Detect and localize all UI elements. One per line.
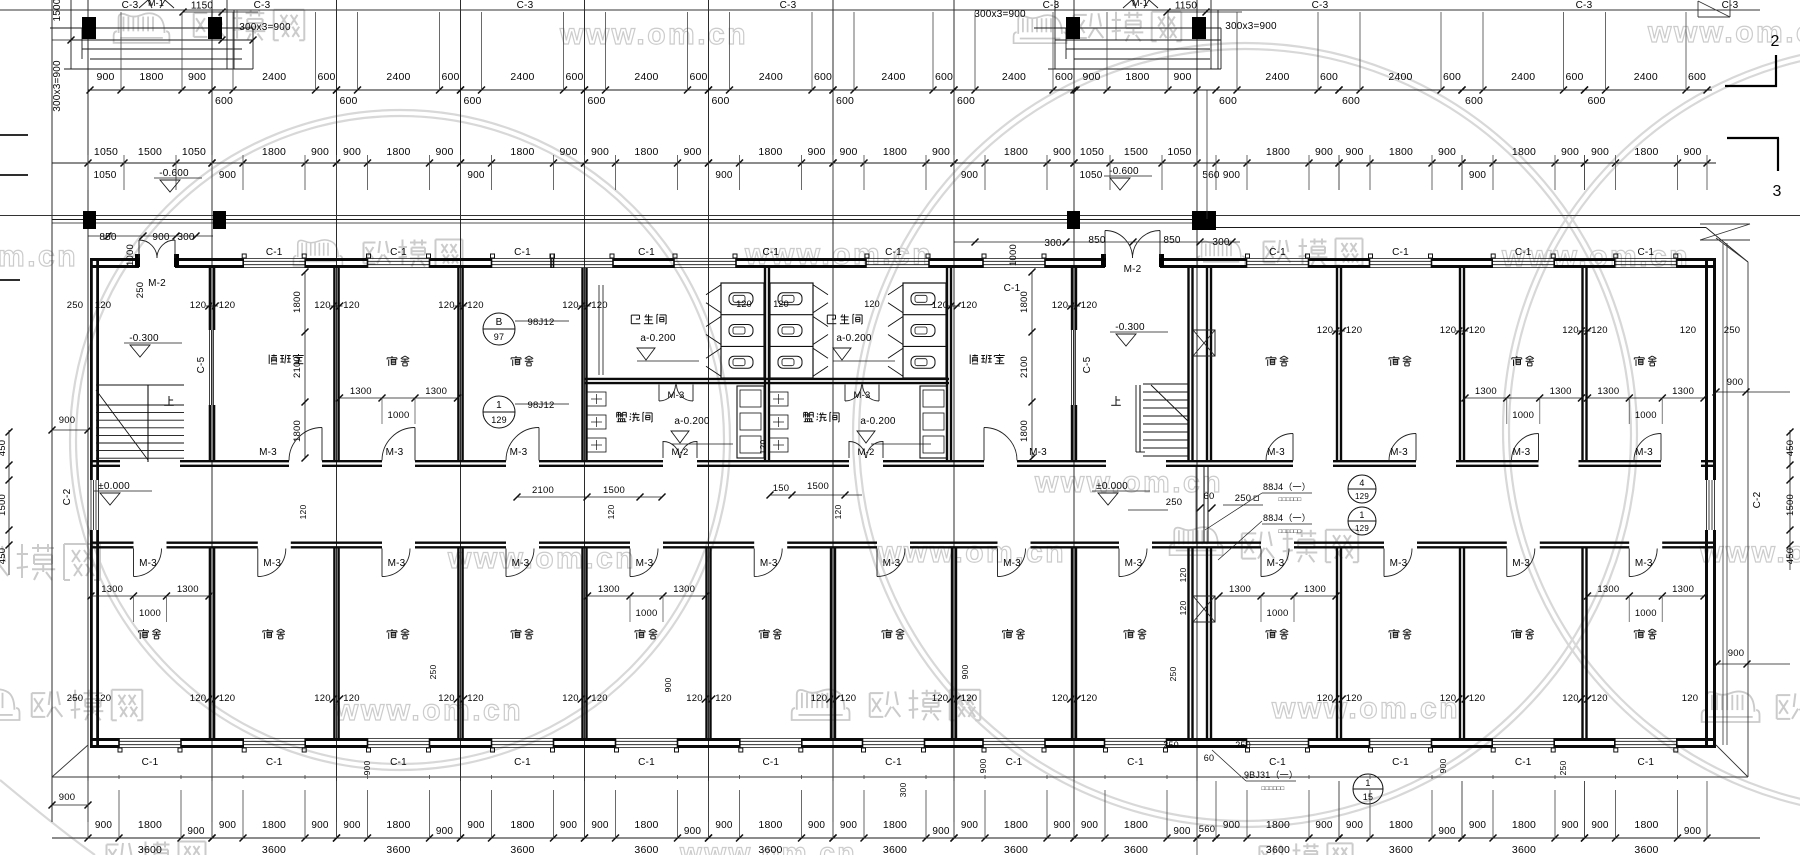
svg-text:300: 300 bbox=[177, 232, 195, 243]
svg-text:600: 600 bbox=[317, 71, 335, 83]
svg-text:C-1: C-1 bbox=[1637, 757, 1654, 768]
svg-text:129: 129 bbox=[1355, 524, 1369, 533]
svg-text:□□□□□□: □□□□□□ bbox=[1262, 786, 1285, 792]
svg-text:250: 250 bbox=[1163, 740, 1179, 750]
svg-text:900: 900 bbox=[1728, 648, 1744, 659]
svg-text:250: 250 bbox=[428, 665, 438, 680]
svg-text:C-1: C-1 bbox=[266, 757, 283, 768]
svg-text:M-3: M-3 bbox=[854, 390, 871, 401]
svg-text:900: 900 bbox=[1591, 820, 1609, 831]
svg-text:C-1: C-1 bbox=[1515, 247, 1532, 258]
svg-text:600: 600 bbox=[689, 71, 707, 83]
svg-text:900: 900 bbox=[715, 170, 733, 181]
svg-text:600: 600 bbox=[1342, 95, 1360, 107]
svg-text:M-3: M-3 bbox=[1635, 447, 1653, 458]
svg-text:1800: 1800 bbox=[510, 146, 534, 158]
svg-text:300: 300 bbox=[1212, 237, 1230, 248]
svg-text:9BJ31（一）: 9BJ31（一） bbox=[1244, 770, 1298, 780]
svg-text:900: 900 bbox=[1591, 146, 1609, 158]
svg-text:1300: 1300 bbox=[1672, 584, 1694, 595]
svg-text:900: 900 bbox=[839, 146, 857, 158]
svg-text:450: 450 bbox=[0, 440, 8, 456]
svg-text:600: 600 bbox=[1055, 71, 1073, 83]
svg-text:250: 250 bbox=[1168, 667, 1178, 682]
svg-text:120: 120 bbox=[314, 693, 330, 704]
svg-text:900: 900 bbox=[362, 761, 372, 776]
svg-text:1800: 1800 bbox=[292, 291, 303, 313]
svg-text:900: 900 bbox=[1173, 826, 1191, 837]
svg-text:120: 120 bbox=[864, 299, 880, 309]
svg-text:60: 60 bbox=[1204, 491, 1215, 502]
svg-text:98J12: 98J12 bbox=[528, 400, 555, 411]
svg-text:1800: 1800 bbox=[1389, 146, 1413, 158]
svg-text:120: 120 bbox=[1440, 325, 1456, 336]
svg-text:600: 600 bbox=[957, 95, 975, 107]
svg-text:3600: 3600 bbox=[1389, 844, 1413, 855]
svg-text:1800: 1800 bbox=[1266, 819, 1290, 831]
svg-text:900: 900 bbox=[961, 820, 979, 831]
svg-text:1800: 1800 bbox=[139, 71, 163, 83]
svg-text:1300: 1300 bbox=[1475, 386, 1497, 397]
svg-text:C-5: C-5 bbox=[1082, 356, 1093, 373]
svg-text:3600: 3600 bbox=[1512, 844, 1536, 855]
svg-text:1050: 1050 bbox=[1079, 170, 1102, 181]
svg-text:1300: 1300 bbox=[598, 584, 620, 595]
svg-text:3600: 3600 bbox=[758, 844, 782, 855]
svg-text:900: 900 bbox=[1561, 146, 1579, 158]
svg-text:120: 120 bbox=[190, 300, 206, 311]
svg-text:C-1: C-1 bbox=[1269, 247, 1286, 258]
svg-text:900: 900 bbox=[932, 826, 950, 837]
svg-text:1800: 1800 bbox=[634, 819, 658, 831]
svg-text:C-1: C-1 bbox=[1392, 247, 1409, 258]
svg-text:2400: 2400 bbox=[262, 71, 286, 83]
svg-text:C-3: C-3 bbox=[780, 0, 797, 11]
svg-text:120: 120 bbox=[591, 300, 607, 311]
svg-text:3600: 3600 bbox=[262, 844, 286, 855]
svg-text:M-1: M-1 bbox=[1132, 0, 1148, 8]
svg-text:15: 15 bbox=[1363, 792, 1373, 802]
svg-text:900: 900 bbox=[1438, 759, 1448, 774]
svg-text:120: 120 bbox=[298, 505, 308, 520]
svg-text:300x3=900: 300x3=900 bbox=[974, 9, 1026, 20]
svg-text:2400: 2400 bbox=[1634, 71, 1658, 83]
svg-text:600: 600 bbox=[935, 71, 953, 83]
svg-text:C-1: C-1 bbox=[266, 247, 283, 258]
svg-text:C-1: C-1 bbox=[1637, 247, 1654, 258]
svg-text:120: 120 bbox=[343, 693, 359, 704]
svg-text:2400: 2400 bbox=[1388, 71, 1412, 83]
svg-text:1800: 1800 bbox=[758, 819, 782, 831]
svg-text:900: 900 bbox=[559, 146, 577, 158]
svg-text:C-1: C-1 bbox=[142, 757, 159, 768]
svg-text:450: 450 bbox=[0, 548, 8, 564]
svg-text:900: 900 bbox=[95, 820, 113, 831]
svg-text:850: 850 bbox=[99, 232, 117, 243]
svg-text:120: 120 bbox=[1469, 693, 1485, 704]
svg-text:600: 600 bbox=[1443, 71, 1461, 83]
svg-text:850: 850 bbox=[1088, 235, 1106, 246]
svg-text:600: 600 bbox=[814, 71, 832, 83]
svg-text:C-1: C-1 bbox=[1269, 757, 1286, 768]
svg-text:1800: 1800 bbox=[510, 819, 534, 831]
svg-text:C-3: C-3 bbox=[122, 0, 139, 11]
svg-text:300x3=900: 300x3=900 bbox=[1225, 21, 1277, 32]
svg-text:250: 250 bbox=[1235, 740, 1251, 750]
svg-text:120: 120 bbox=[961, 693, 977, 704]
svg-text:2: 2 bbox=[1770, 33, 1779, 50]
svg-text:1000: 1000 bbox=[125, 244, 136, 266]
svg-text:M-2: M-2 bbox=[858, 447, 875, 458]
svg-text:900: 900 bbox=[1438, 826, 1456, 837]
svg-text:600: 600 bbox=[215, 95, 233, 107]
svg-text:1500: 1500 bbox=[52, 0, 63, 22]
svg-text:M-3: M-3 bbox=[1390, 558, 1408, 569]
svg-text:1800: 1800 bbox=[1124, 819, 1148, 831]
svg-text:1050: 1050 bbox=[93, 170, 116, 181]
svg-text:560: 560 bbox=[1199, 824, 1215, 835]
svg-text:C-2: C-2 bbox=[62, 488, 73, 505]
svg-text:www.om.cn: www.om.cn bbox=[0, 240, 78, 273]
svg-text:450: 450 bbox=[1785, 440, 1796, 456]
svg-text:1: 1 bbox=[496, 400, 502, 411]
svg-text:M-3: M-3 bbox=[1003, 558, 1021, 569]
svg-text:C-1: C-1 bbox=[638, 247, 655, 258]
svg-text:M-3: M-3 bbox=[883, 558, 901, 569]
svg-text:900: 900 bbox=[59, 415, 75, 426]
svg-text:1000: 1000 bbox=[1512, 410, 1534, 421]
svg-text:250: 250 bbox=[1235, 493, 1251, 504]
svg-text:900: 900 bbox=[187, 826, 205, 837]
svg-text:C-3: C-3 bbox=[1576, 0, 1593, 11]
svg-text:900: 900 bbox=[663, 678, 673, 693]
svg-text:98J12: 98J12 bbox=[528, 317, 555, 328]
svg-text:M-3: M-3 bbox=[1513, 447, 1531, 458]
svg-text:1800: 1800 bbox=[262, 146, 286, 158]
svg-text:900: 900 bbox=[807, 146, 825, 158]
svg-text:250: 250 bbox=[1166, 497, 1182, 508]
svg-text:129: 129 bbox=[1355, 492, 1369, 501]
svg-text:1800: 1800 bbox=[883, 819, 907, 831]
svg-text:900: 900 bbox=[715, 820, 733, 831]
svg-text:1300: 1300 bbox=[1229, 584, 1251, 595]
svg-text:250: 250 bbox=[67, 300, 83, 311]
svg-text:900: 900 bbox=[188, 71, 206, 83]
svg-text:120: 120 bbox=[1081, 693, 1097, 704]
svg-text:1800: 1800 bbox=[1125, 71, 1149, 83]
svg-text:1800: 1800 bbox=[262, 819, 286, 831]
svg-text:-0.600: -0.600 bbox=[159, 168, 189, 179]
svg-text:900: 900 bbox=[311, 820, 329, 831]
svg-text:C-1: C-1 bbox=[1127, 757, 1144, 768]
svg-text:2400: 2400 bbox=[1002, 71, 1026, 83]
svg-text:1050: 1050 bbox=[182, 146, 206, 158]
svg-text:120: 120 bbox=[840, 693, 856, 704]
svg-text:97: 97 bbox=[494, 332, 504, 342]
svg-text:900: 900 bbox=[1346, 820, 1364, 831]
svg-text:900: 900 bbox=[1081, 820, 1099, 831]
svg-text:900: 900 bbox=[1173, 71, 1191, 83]
svg-text:C-1: C-1 bbox=[1515, 757, 1532, 768]
svg-text:900: 900 bbox=[59, 792, 75, 803]
svg-text:C-1: C-1 bbox=[390, 247, 407, 258]
svg-text:120: 120 bbox=[1591, 325, 1607, 336]
svg-text:120: 120 bbox=[314, 300, 330, 311]
svg-text:1800: 1800 bbox=[386, 146, 410, 158]
svg-text:M-2: M-2 bbox=[672, 447, 689, 458]
svg-text:1500: 1500 bbox=[138, 146, 162, 158]
svg-text:900: 900 bbox=[1469, 820, 1487, 831]
svg-text:900: 900 bbox=[961, 170, 979, 181]
svg-text:120: 120 bbox=[219, 693, 235, 704]
svg-text:3600: 3600 bbox=[634, 844, 658, 855]
svg-text:900: 900 bbox=[1053, 820, 1071, 831]
svg-text:900: 900 bbox=[684, 826, 702, 837]
svg-text:120: 120 bbox=[811, 693, 827, 704]
svg-text:1800: 1800 bbox=[883, 146, 907, 158]
svg-text:120: 120 bbox=[1591, 693, 1607, 704]
svg-text:3600: 3600 bbox=[1266, 844, 1290, 855]
svg-text:120: 120 bbox=[1469, 325, 1485, 336]
svg-text:C-3: C-3 bbox=[254, 0, 271, 11]
svg-text:M-3: M-3 bbox=[1390, 447, 1408, 458]
svg-text:900: 900 bbox=[311, 146, 329, 158]
svg-text:120: 120 bbox=[95, 693, 111, 704]
svg-text:1300: 1300 bbox=[1597, 386, 1619, 397]
svg-text:250: 250 bbox=[135, 282, 146, 298]
svg-text:300x3=900: 300x3=900 bbox=[52, 60, 63, 112]
svg-text:900: 900 bbox=[1223, 170, 1241, 181]
svg-text:120: 120 bbox=[932, 300, 948, 311]
svg-text:600: 600 bbox=[463, 95, 481, 107]
svg-text:C-1: C-1 bbox=[390, 757, 407, 768]
svg-text:2100: 2100 bbox=[532, 485, 554, 496]
svg-text:2400: 2400 bbox=[759, 71, 783, 83]
svg-text:M-3: M-3 bbox=[263, 558, 281, 569]
svg-text:120: 120 bbox=[1178, 601, 1188, 616]
svg-text:1050: 1050 bbox=[1167, 146, 1191, 158]
svg-text:□□□□□□: □□□□□□ bbox=[1279, 529, 1302, 535]
svg-text:1500: 1500 bbox=[0, 494, 8, 516]
svg-text:900: 900 bbox=[219, 170, 237, 181]
svg-text:www.om.cn: www.om.cn bbox=[559, 18, 748, 51]
svg-text:1800: 1800 bbox=[1512, 819, 1536, 831]
svg-text:1000: 1000 bbox=[1635, 608, 1657, 619]
svg-text:250: 250 bbox=[1724, 325, 1740, 336]
svg-text:C-3: C-3 bbox=[1312, 0, 1329, 11]
svg-text:900: 900 bbox=[1053, 146, 1071, 158]
svg-text:900: 900 bbox=[1683, 146, 1701, 158]
svg-text:900: 900 bbox=[840, 820, 858, 831]
svg-text:1300: 1300 bbox=[350, 386, 372, 397]
svg-text:120: 120 bbox=[562, 693, 578, 704]
svg-text:850: 850 bbox=[1163, 235, 1181, 246]
svg-text:600: 600 bbox=[441, 71, 459, 83]
svg-text:1050: 1050 bbox=[1080, 146, 1104, 158]
svg-text:900: 900 bbox=[343, 146, 361, 158]
svg-text:www.om.cn: www.om.cn bbox=[1271, 692, 1460, 725]
svg-text:1800: 1800 bbox=[1004, 819, 1028, 831]
svg-text:M-3: M-3 bbox=[1267, 447, 1285, 458]
svg-text:120: 120 bbox=[467, 693, 483, 704]
svg-text:120: 120 bbox=[438, 693, 454, 704]
svg-text:900: 900 bbox=[978, 759, 988, 774]
svg-text:120: 120 bbox=[343, 300, 359, 311]
svg-text:900: 900 bbox=[435, 146, 453, 158]
svg-text:a-0.200: a-0.200 bbox=[860, 416, 896, 427]
svg-text:560: 560 bbox=[1202, 170, 1220, 181]
svg-text:250: 250 bbox=[67, 693, 83, 704]
svg-text:120: 120 bbox=[467, 300, 483, 311]
svg-text:300: 300 bbox=[1044, 238, 1062, 249]
svg-text:600: 600 bbox=[1219, 95, 1237, 107]
svg-text:1800: 1800 bbox=[1389, 819, 1413, 831]
svg-text:120: 120 bbox=[562, 300, 578, 311]
svg-text:120: 120 bbox=[1346, 325, 1362, 336]
svg-text:120: 120 bbox=[1178, 568, 1188, 583]
svg-text:1000: 1000 bbox=[139, 608, 161, 619]
svg-text:900: 900 bbox=[1727, 377, 1743, 388]
svg-text:M-2: M-2 bbox=[148, 278, 166, 289]
svg-text:1000: 1000 bbox=[1635, 410, 1657, 421]
svg-text:M-3: M-3 bbox=[636, 558, 654, 569]
svg-text:150: 150 bbox=[773, 483, 789, 494]
svg-text:120: 120 bbox=[1680, 325, 1696, 336]
svg-text:4: 4 bbox=[1359, 478, 1364, 488]
svg-text:900: 900 bbox=[591, 820, 609, 831]
svg-text:-0.300: -0.300 bbox=[129, 333, 159, 344]
svg-text:-0.600: -0.600 bbox=[1109, 166, 1139, 177]
svg-text:1500: 1500 bbox=[807, 481, 829, 492]
svg-text:±0.000: ±0.000 bbox=[1096, 481, 1128, 492]
svg-text:120: 120 bbox=[1081, 300, 1097, 311]
svg-text:1800: 1800 bbox=[1634, 819, 1658, 831]
svg-text:M-3: M-3 bbox=[512, 558, 530, 569]
svg-text:3600: 3600 bbox=[1004, 844, 1028, 855]
svg-text:M-2: M-2 bbox=[1124, 264, 1142, 275]
svg-text:120: 120 bbox=[1317, 325, 1333, 336]
svg-text:3600: 3600 bbox=[1634, 844, 1658, 855]
svg-text:M-1: M-1 bbox=[148, 0, 164, 8]
svg-text:600: 600 bbox=[1465, 95, 1483, 107]
svg-text:M-3: M-3 bbox=[386, 447, 404, 458]
svg-text:900: 900 bbox=[436, 826, 454, 837]
svg-text:3600: 3600 bbox=[883, 844, 907, 855]
svg-text:1800: 1800 bbox=[292, 420, 303, 442]
svg-text:120: 120 bbox=[758, 440, 768, 455]
svg-text:C-1: C-1 bbox=[762, 757, 779, 768]
svg-text:120: 120 bbox=[1562, 693, 1578, 704]
svg-text:60: 60 bbox=[1204, 753, 1214, 763]
svg-text:120: 120 bbox=[1562, 325, 1578, 336]
svg-text:2400: 2400 bbox=[386, 71, 410, 83]
svg-text:600: 600 bbox=[1688, 71, 1706, 83]
svg-text:900: 900 bbox=[1315, 146, 1333, 158]
svg-text:B: B bbox=[496, 317, 503, 328]
svg-text:900: 900 bbox=[219, 820, 237, 831]
svg-text:a-0.200: a-0.200 bbox=[674, 416, 710, 427]
svg-text:3600: 3600 bbox=[138, 844, 162, 855]
svg-text:600: 600 bbox=[339, 95, 357, 107]
svg-text:C-1: C-1 bbox=[1392, 757, 1409, 768]
svg-text:-0.300: -0.300 bbox=[1115, 322, 1145, 333]
svg-text:600: 600 bbox=[565, 71, 583, 83]
svg-text:1500: 1500 bbox=[1785, 494, 1796, 516]
svg-text:900: 900 bbox=[960, 665, 970, 680]
svg-text:1800: 1800 bbox=[386, 819, 410, 831]
svg-text:600: 600 bbox=[711, 95, 729, 107]
svg-text:C-3: C-3 bbox=[1043, 0, 1060, 11]
svg-text:M-3: M-3 bbox=[1125, 558, 1143, 569]
svg-text:1000: 1000 bbox=[636, 608, 658, 619]
svg-text:120: 120 bbox=[591, 693, 607, 704]
svg-text:a-0.200: a-0.200 bbox=[836, 333, 872, 344]
svg-text:C-1: C-1 bbox=[885, 247, 902, 258]
svg-text:900: 900 bbox=[467, 170, 485, 181]
svg-text:250: 250 bbox=[1558, 761, 1568, 776]
svg-text:600: 600 bbox=[587, 95, 605, 107]
svg-text:3600: 3600 bbox=[510, 844, 534, 855]
svg-text:1050: 1050 bbox=[94, 146, 118, 158]
svg-text:C-2: C-2 bbox=[1752, 491, 1763, 508]
svg-text:120: 120 bbox=[1052, 300, 1068, 311]
svg-text:900: 900 bbox=[1561, 820, 1579, 831]
svg-text:900: 900 bbox=[932, 146, 950, 158]
svg-text:120: 120 bbox=[961, 300, 977, 311]
svg-text:1300: 1300 bbox=[1550, 386, 1572, 397]
svg-text:2400: 2400 bbox=[881, 71, 905, 83]
svg-text:120: 120 bbox=[773, 299, 789, 309]
svg-text:1800: 1800 bbox=[634, 146, 658, 158]
svg-text:1300: 1300 bbox=[1304, 584, 1326, 595]
svg-text:450: 450 bbox=[1785, 548, 1796, 564]
svg-text:1: 1 bbox=[1365, 778, 1370, 788]
svg-text:900: 900 bbox=[683, 146, 701, 158]
svg-text:600: 600 bbox=[836, 95, 854, 107]
svg-text:1800: 1800 bbox=[1512, 146, 1536, 158]
svg-text:C-3: C-3 bbox=[517, 0, 534, 11]
svg-text:300x3=900: 300x3=900 bbox=[239, 22, 291, 33]
svg-text:120: 120 bbox=[1346, 693, 1362, 704]
svg-text:120: 120 bbox=[932, 693, 948, 704]
svg-text:a-0.200: a-0.200 bbox=[640, 333, 676, 344]
svg-text:900: 900 bbox=[1684, 826, 1702, 837]
svg-text:600: 600 bbox=[1587, 95, 1605, 107]
svg-text:2400: 2400 bbox=[510, 71, 534, 83]
svg-text:1800: 1800 bbox=[1634, 146, 1658, 158]
svg-text:600: 600 bbox=[1565, 71, 1583, 83]
svg-text:120: 120 bbox=[1052, 693, 1068, 704]
svg-text:1800: 1800 bbox=[1019, 420, 1030, 442]
svg-text:120: 120 bbox=[736, 299, 752, 309]
svg-text:900: 900 bbox=[1315, 820, 1333, 831]
svg-text:www.om.cn: www.om.cn bbox=[877, 536, 1066, 569]
svg-text:M-3: M-3 bbox=[1635, 558, 1653, 569]
svg-text:120: 120 bbox=[686, 693, 702, 704]
svg-text:3: 3 bbox=[1772, 183, 1781, 200]
svg-text:600: 600 bbox=[1320, 71, 1338, 83]
svg-text:2400: 2400 bbox=[634, 71, 658, 83]
svg-text:3600: 3600 bbox=[1124, 844, 1148, 855]
svg-text:M-3: M-3 bbox=[1512, 558, 1530, 569]
svg-text:120: 120 bbox=[95, 300, 111, 311]
svg-text:1000: 1000 bbox=[388, 410, 410, 421]
svg-text:2400: 2400 bbox=[1511, 71, 1535, 83]
svg-text:C-1: C-1 bbox=[514, 247, 531, 258]
svg-text:120: 120 bbox=[833, 505, 843, 520]
svg-text:C-5: C-5 bbox=[196, 356, 207, 373]
svg-text:±0.000: ±0.000 bbox=[98, 481, 130, 492]
